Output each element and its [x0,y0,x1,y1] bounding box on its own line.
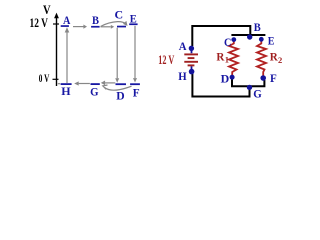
svg-text:A: A [63,13,71,27]
svg-text:1: 1 [225,54,229,64]
svg-text:G: G [253,86,262,100]
svg-text:G: G [90,84,98,98]
svg-text:E: E [130,11,137,25]
svg-text:R: R [216,51,225,63]
svg-text:A: A [179,39,187,53]
svg-text:12 V: 12 V [158,53,174,67]
svg-text:E: E [268,34,275,48]
svg-text:C: C [115,8,124,22]
svg-text:F: F [270,71,277,85]
svg-text:H: H [61,84,71,98]
svg-text:2: 2 [278,55,282,65]
svg-text:F: F [133,85,140,99]
svg-text:B: B [254,20,261,34]
svg-text:12 V: 12 V [30,15,49,30]
svg-text:0 V: 0 V [39,71,50,85]
svg-text:C: C [224,35,231,49]
svg-text:B: B [92,13,99,27]
svg-text:H: H [178,69,187,83]
svg-text:D: D [221,71,230,85]
